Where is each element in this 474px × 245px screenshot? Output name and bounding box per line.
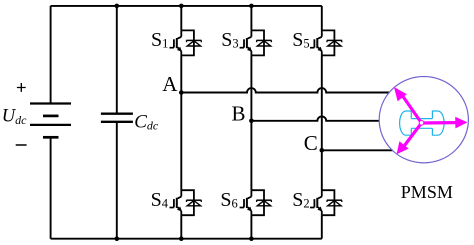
svg-text:C: C [304,131,318,155]
label: minus sign of battery [16,144,27,146]
svg-text:B: B [232,101,246,125]
battery U_dc: long plate 2 [30,124,71,126]
wire: phase-C leg upper (top bus to S5) [321,6,323,31]
motor PMSM: rotor shaft top edge [411,118,432,120]
svg-text:S1: S1 [151,29,168,51]
flux arrow up-left (magenta) [394,87,422,123]
battery U_dc: short plate 2 (-) [43,136,59,139]
svg-text:S4: S4 [151,189,169,211]
motor PMSM: hub circle [419,121,424,126]
junction dot: bottom bus / capacitor [115,236,120,241]
wire: phase C output line [322,149,393,151]
label: plus sign of battery [17,83,26,92]
transistor S5 (IGBT module) [310,30,342,55]
junction dot: node A [179,90,184,95]
junction dot: top bus / capacitor [115,4,120,9]
wire: phase-C leg lower (S2 to bottom bus) [321,215,323,239]
wire: capacitor branch upper [116,6,118,114]
motor PMSM: rotor left end cap (cyan) [400,111,412,135]
svg-text:S5: S5 [292,29,309,51]
transistor S4 (IGBT module) [170,190,202,215]
svg-text:S3: S3 [221,29,238,51]
junction dot: bottom bus / S4 leg [179,236,184,241]
wire: top DC bus [51,5,322,7]
wire: phase-A leg upper (top bus to S1) [180,6,182,31]
svg-text:PMSM: PMSM [401,182,453,202]
wire: phase A output line with hops over legs B and C [181,88,389,92]
svg-text:S6: S6 [220,189,237,211]
wire: phase-A leg middle (S1 to S4) [180,55,182,190]
transistor S3 (IGBT module) [240,30,272,55]
wire: left wire lower (battery - to bottom bus) [50,137,52,238]
wire: left wire upper (top bus to battery +) [50,6,52,104]
wire: phase-A leg lower (S4 to bottom bus) [180,215,182,239]
junction dot: bottom bus / S6 leg [249,236,254,241]
battery U_dc: long plate 1 (+) [30,102,71,104]
flux arrow down-left (magenta) [397,123,422,154]
svg-text:S2: S2 [292,189,309,211]
svg-text:Udc: Udc [2,106,27,127]
junction dot: top bus / S3 leg [249,4,254,9]
wire: phase-B leg upper (top bus to S3) [250,6,252,31]
svg-text:A: A [162,72,178,96]
junction dot: top bus / S1 leg [179,4,184,9]
wire: phase-B leg lower (S6 to bottom bus) [250,215,252,239]
battery U_dc: short plate 1 [43,115,59,118]
wire: phase-B leg middle (S3 to S6) [250,55,252,190]
wire: phase B output line with hop over leg C [251,116,379,120]
flux arrow right (magenta) [422,117,468,129]
motor PMSM: rotor right end cap (cyan) [432,111,444,135]
capacitor Cdc: top plate [101,112,133,114]
junction dot: node C [320,148,325,153]
motor PMSM: stator circle [379,77,468,163]
transistor S6 (IGBT module) [240,190,272,215]
wire: capacitor branch lower [116,122,118,239]
wire: bottom DC bus [51,238,322,240]
svg-text:Cdc: Cdc [134,112,159,133]
junction dot: node B [249,119,254,124]
motor PMSM: rotor shaft bottom edge [411,127,432,129]
transistor S1 (IGBT module) [170,30,202,55]
capacitor Cdc: bottom plate [101,121,133,123]
wire: phase-C leg middle (S5 to S2) [321,55,323,190]
transistor S2 (IGBT module) [310,190,342,215]
